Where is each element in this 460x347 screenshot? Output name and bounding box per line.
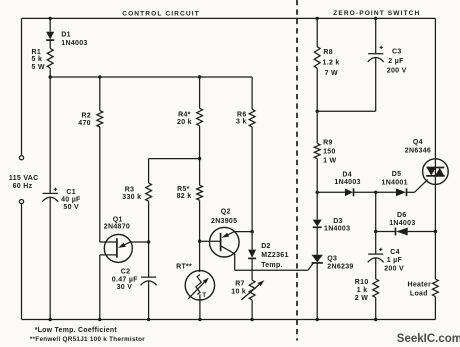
svg-text:1 k: 1 k: [357, 287, 368, 294]
svg-text:MZ2361: MZ2361: [261, 252, 288, 259]
svg-text:2 µF: 2 µF: [388, 58, 404, 65]
svg-text:R1: R1: [32, 49, 42, 56]
svg-text:R7: R7: [235, 281, 245, 288]
svg-text:1N4001: 1N4001: [382, 179, 408, 186]
svg-text:*Low Temp. Coefficient: *Low Temp. Coefficient: [35, 327, 118, 334]
svg-text:1.2 k: 1.2 k: [323, 60, 340, 67]
svg-text:1N4003: 1N4003: [61, 40, 87, 47]
svg-text:Heater: Heater: [408, 281, 432, 288]
svg-text:3 k: 3 k: [236, 119, 247, 126]
svg-text:C3: C3: [392, 49, 402, 56]
svg-text:1N4003: 1N4003: [324, 225, 350, 232]
svg-text:20 k: 20 k: [177, 119, 192, 126]
svg-text:50 V: 50 V: [63, 204, 79, 211]
svg-text:7 W: 7 W: [325, 70, 338, 77]
svg-text:R2: R2: [82, 113, 92, 120]
svg-text:R8: R8: [323, 49, 333, 56]
svg-text:150: 150: [323, 149, 336, 156]
svg-text:2 W: 2 W: [355, 295, 368, 302]
svg-text:D1: D1: [61, 31, 71, 38]
svg-text:200 V: 200 V: [387, 67, 407, 74]
svg-text:1N4003: 1N4003: [389, 220, 415, 227]
svg-text:C2: C2: [121, 269, 131, 276]
svg-text:30 V: 30 V: [117, 284, 133, 291]
svg-text:115 VAC: 115 VAC: [9, 175, 39, 182]
svg-text:5 W: 5 W: [32, 64, 45, 71]
svg-text:Q2: Q2: [221, 208, 231, 215]
svg-text:Load: Load: [410, 291, 428, 298]
svg-text:ZERO-POINT SWITCH: ZERO-POINT SWITCH: [333, 10, 420, 17]
svg-text:D2: D2: [261, 243, 271, 250]
svg-text:SeekIC.com: SeekIC.com: [397, 333, 460, 345]
svg-text:T: T: [202, 292, 206, 299]
svg-text:CONTROL CIRCUIT: CONTROL CIRCUIT: [122, 11, 200, 18]
svg-text:Q1: Q1: [113, 217, 123, 224]
svg-text:D3: D3: [333, 218, 343, 225]
svg-text:2N6239: 2N6239: [327, 264, 353, 271]
svg-text:R10: R10: [355, 279, 369, 286]
svg-text:C4: C4: [390, 249, 400, 256]
svg-text:82 k: 82 k: [177, 193, 192, 200]
svg-text:40 µF: 40 µF: [61, 197, 81, 204]
svg-text:R9: R9: [323, 140, 333, 147]
svg-text:D6: D6: [397, 212, 407, 219]
svg-text:R6: R6: [237, 112, 247, 119]
svg-text:Temp.: Temp.: [261, 262, 283, 269]
svg-text:R3: R3: [125, 187, 135, 194]
svg-text:2N4870: 2N4870: [104, 224, 130, 231]
svg-text:**Fenwell QR51J1 100 k Thermis: **Fenwell QR51J1 100 k Thermistor: [30, 336, 145, 343]
svg-text:470: 470: [78, 120, 91, 127]
svg-text:5 k: 5 k: [32, 56, 43, 63]
svg-text:1N4003: 1N4003: [334, 179, 360, 186]
svg-text:60 Hz: 60 Hz: [13, 183, 33, 190]
svg-text:1 W: 1 W: [323, 157, 336, 164]
svg-text:R4*: R4*: [178, 112, 191, 119]
svg-text:1 µF: 1 µF: [387, 257, 403, 264]
svg-text:2N6346: 2N6346: [405, 148, 431, 155]
svg-text:Q3: Q3: [327, 255, 337, 262]
svg-text:D4: D4: [342, 171, 352, 178]
svg-text:R5*: R5*: [177, 186, 190, 193]
svg-text:10 k: 10 k: [231, 289, 246, 296]
svg-text:330 k: 330 k: [122, 194, 141, 201]
svg-text:RT**: RT**: [176, 263, 192, 270]
svg-text:2N3905: 2N3905: [211, 218, 237, 225]
svg-text:200 V: 200 V: [384, 265, 404, 272]
svg-text:D5: D5: [392, 171, 402, 178]
svg-text:C1: C1: [66, 189, 76, 196]
svg-text:Q4: Q4: [413, 139, 423, 146]
svg-text:0.47 µF: 0.47 µF: [112, 277, 138, 284]
